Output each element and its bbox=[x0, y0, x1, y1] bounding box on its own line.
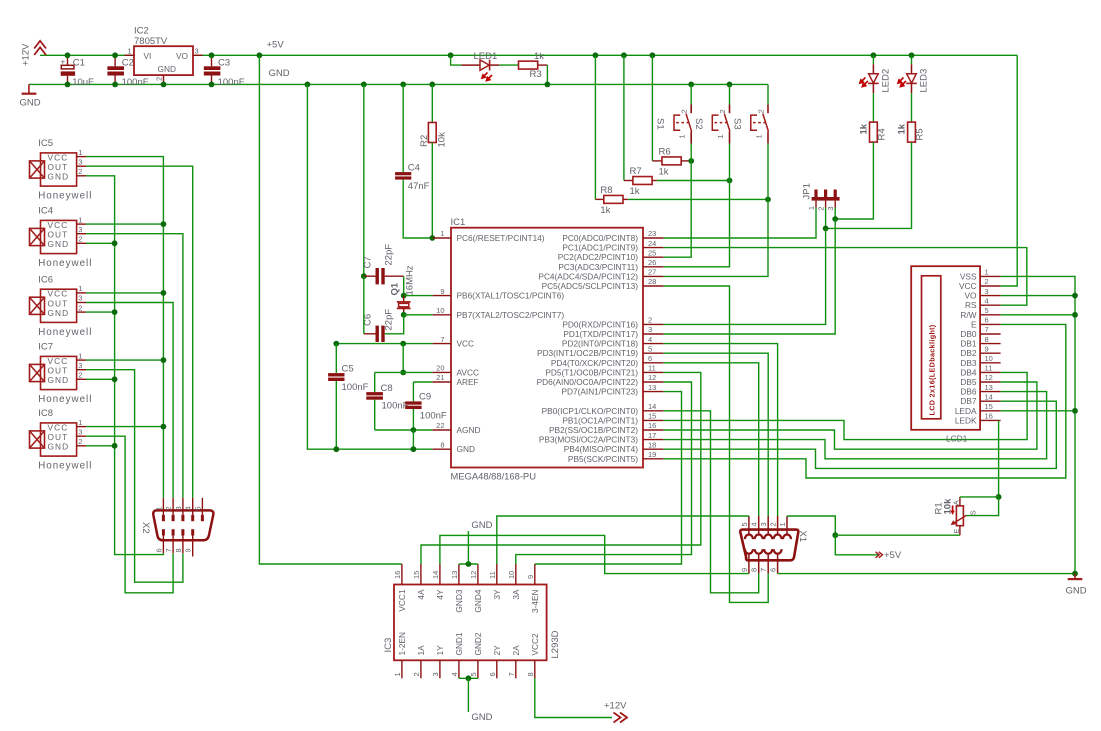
svg-text:PC5(ADC5/SCLPCINT13): PC5(ADC5/SCLPCINT13) bbox=[542, 281, 639, 291]
junction C5 bottom bbox=[333, 446, 339, 452]
svg-text:4: 4 bbox=[648, 335, 652, 344]
svg-text:21: 21 bbox=[436, 373, 444, 382]
svg-text:2: 2 bbox=[718, 109, 727, 113]
svg-text:DB5: DB5 bbox=[960, 377, 977, 387]
svg-text:C7: C7 bbox=[363, 256, 374, 268]
sensor IC5 Honeywell bbox=[30, 152, 77, 186]
svg-text:LEDK: LEDK bbox=[955, 415, 977, 425]
svg-text:7805TV: 7805TV bbox=[134, 36, 168, 47]
svg-text:C2: C2 bbox=[122, 57, 134, 68]
wire AVCC row bbox=[375, 371, 433, 373]
pin 6 IC3 2Y bbox=[496, 660, 498, 678]
supply +12V arrow bottom bbox=[614, 713, 628, 723]
svg-text:RS: RS bbox=[965, 300, 977, 310]
svg-text:DB2: DB2 bbox=[960, 348, 977, 358]
svg-text:3: 3 bbox=[78, 427, 82, 436]
junction IC2 pin2 on GND rail bbox=[161, 82, 167, 88]
svg-text:VO: VO bbox=[965, 291, 978, 301]
wire PD3 to X1.3 bbox=[663, 353, 768, 516]
svg-text:GND: GND bbox=[48, 239, 70, 249]
svg-text:PD0(RXD/PCINT16): PD0(RXD/PCINT16) bbox=[562, 319, 638, 329]
pin 7 IC3 2A bbox=[515, 660, 517, 678]
wire C4 to reset node bbox=[403, 180, 432, 238]
svg-text:+5V: +5V bbox=[267, 40, 285, 51]
wire C4 drop bbox=[402, 84, 404, 172]
pin 12 IC1 PD6(AIN0/OC0A/PCINT22) bbox=[643, 381, 663, 383]
svg-text:IC1: IC1 bbox=[451, 217, 466, 228]
pin 16 IC3 VCC1 bbox=[401, 564, 403, 585]
svg-text:3: 3 bbox=[648, 325, 652, 334]
svg-text:4: 4 bbox=[750, 522, 759, 526]
pin 14 IC1 PB0(ICP1/CLKO/PCINT0) bbox=[643, 410, 663, 412]
capacitor C3 bbox=[204, 55, 221, 84]
supply +5V arrow bbox=[876, 552, 883, 558]
svg-text:5: 5 bbox=[193, 506, 202, 510]
wire PB2 to LCD DB5 bbox=[663, 382, 1037, 449]
junction S2 gnd rail bbox=[727, 82, 733, 88]
junction VCC-AVCC link top bbox=[400, 341, 406, 347]
pin 3 LCD VO bbox=[980, 295, 1001, 297]
pin 11 LCD DB4 bbox=[980, 371, 1001, 373]
junction C3 top bbox=[209, 52, 215, 58]
pin 3 IC8 bbox=[77, 435, 86, 437]
svg-text:12: 12 bbox=[648, 373, 656, 382]
wire PB0 to X1.8 bbox=[663, 411, 758, 593]
svg-text:10uF: 10uF bbox=[72, 77, 94, 88]
junction C1 top bbox=[65, 52, 71, 58]
junction +5V drop bbox=[257, 52, 263, 58]
svg-text:PB4(MISO/PCINT4): PB4(MISO/PCINT4) bbox=[564, 444, 638, 454]
svg-text:2: 2 bbox=[817, 207, 826, 211]
junction C3 bottom bbox=[209, 82, 215, 88]
svg-text:+: + bbox=[61, 57, 66, 66]
svg-text:14: 14 bbox=[431, 571, 440, 579]
svg-text:VSS: VSS bbox=[960, 271, 977, 281]
LED LED1 bbox=[462, 60, 500, 81]
svg-text:LED1: LED1 bbox=[474, 51, 498, 62]
svg-text:22: 22 bbox=[436, 421, 444, 430]
svg-text:7: 7 bbox=[985, 325, 989, 334]
pin 21 IC1 AREF bbox=[433, 381, 451, 383]
wire PB5 to LCD E bbox=[663, 324, 1065, 478]
pin 8 IC3 VCC2 bbox=[534, 660, 536, 678]
svg-text:10: 10 bbox=[507, 571, 516, 579]
svg-text:GND: GND bbox=[48, 172, 70, 182]
svg-text:3: 3 bbox=[78, 294, 82, 303]
wire IC3 bottom gnd stub bbox=[467, 678, 469, 712]
svg-text:AREF: AREF bbox=[457, 377, 479, 387]
junction reset node bbox=[429, 235, 435, 241]
svg-text:1: 1 bbox=[807, 206, 816, 210]
svg-text:VCC: VCC bbox=[959, 281, 977, 291]
svg-text:Honeywell: Honeywell bbox=[38, 191, 92, 202]
pin 11 IC1 PD5(T1/OC0B/PCINT21) bbox=[643, 371, 663, 373]
wire S3 top feed bbox=[767, 84, 769, 104]
pin 7 LCD DB0 bbox=[980, 333, 1001, 335]
svg-text:6: 6 bbox=[769, 568, 778, 572]
svg-text:1: 1 bbox=[678, 134, 687, 138]
svg-text:IC2: IC2 bbox=[134, 25, 149, 36]
pin 1 IC4 bbox=[77, 223, 86, 225]
junction R6 feed bbox=[650, 52, 656, 58]
svg-text:+12V: +12V bbox=[21, 43, 32, 66]
pin 26 IC1 PC3(ADC3/PCINT11) bbox=[643, 266, 663, 268]
svg-text:16: 16 bbox=[985, 412, 993, 421]
wire IC4 GND bbox=[86, 242, 115, 244]
wire +5V drop to IC3 VCC1 bbox=[259, 55, 402, 564]
svg-text:9: 9 bbox=[740, 568, 749, 572]
junction XTAL2 node bbox=[401, 312, 407, 318]
wire IC6 GND bbox=[86, 311, 115, 313]
junction IC6 VCC bbox=[161, 290, 167, 296]
svg-text:15: 15 bbox=[648, 412, 656, 421]
svg-text:13: 13 bbox=[985, 383, 993, 392]
wire AREF row bbox=[413, 381, 432, 383]
svg-text:R4: R4 bbox=[877, 128, 888, 140]
wire +5V rail drop to LCD VCC bbox=[1001, 55, 1018, 286]
pin 11 IC3 3Y bbox=[496, 564, 498, 585]
pin 5 LCD R/W bbox=[980, 314, 1001, 316]
pin 1 IC5 bbox=[77, 156, 86, 158]
pin 4 IC3 GND1 bbox=[458, 660, 460, 678]
junction LED1 tap bbox=[448, 52, 454, 58]
wire IC5 OUT to X2.4 bbox=[86, 166, 193, 498]
wire LCD LEDK to R1 bbox=[998, 420, 1000, 497]
pin 6 IC1 PD4(T0/XCK/PCINT20) bbox=[643, 362, 663, 364]
svg-text:25: 25 bbox=[648, 248, 656, 257]
junction IC4 GND bbox=[112, 240, 118, 246]
svg-text:47nF: 47nF bbox=[408, 181, 430, 192]
wire JP1.2 node to PD0 bbox=[663, 228, 825, 324]
pin 24 IC1 PC1(ADC1/PCINT9) bbox=[643, 247, 663, 249]
svg-text:7: 7 bbox=[507, 672, 516, 676]
pin 18 IC1 PB4(MISO/PCINT4) bbox=[643, 448, 663, 450]
junction AVCC node bbox=[400, 370, 406, 376]
svg-text:GND: GND bbox=[20, 98, 41, 109]
svg-text:6: 6 bbox=[154, 548, 163, 552]
pin 2 IC4 bbox=[77, 242, 86, 244]
svg-text:PC0(ADC0/PCINT8): PC0(ADC0/PCINT8) bbox=[562, 233, 638, 243]
wire S3 bottom bbox=[767, 144, 769, 200]
svg-text:8: 8 bbox=[750, 568, 759, 572]
svg-text:C5: C5 bbox=[342, 364, 354, 375]
svg-text:2: 2 bbox=[680, 109, 689, 113]
wire R8 to S3 bbox=[623, 198, 628, 200]
pin 23 IC1 PC0(ADC0/PCINT8) bbox=[643, 237, 663, 239]
svg-text:1: 1 bbox=[716, 134, 725, 138]
junction C9 AGND bbox=[411, 427, 417, 433]
svg-text:GND: GND bbox=[269, 68, 290, 79]
wire IC3 GND3-GND4 bracket bbox=[459, 563, 478, 565]
pin 12 LCD DB5 bbox=[980, 381, 1001, 383]
svg-text:X2: X2 bbox=[140, 522, 151, 534]
svg-text:PC4(ADC4/SDA/PCINT12): PC4(ADC4/SDA/PCINT12) bbox=[538, 271, 638, 281]
wire +12V top rail bbox=[40, 54, 134, 56]
pin 9 IC1 PB6(XTAL1/TOSC1/PCINT6) bbox=[433, 295, 451, 297]
svg-text:5: 5 bbox=[985, 306, 989, 315]
pin 4 LCD RS bbox=[980, 304, 1001, 306]
pin 2 IC5 bbox=[77, 175, 86, 177]
pin 14 IC3 4Y bbox=[439, 564, 441, 585]
svg-text:16: 16 bbox=[648, 421, 656, 430]
svg-text:3: 3 bbox=[431, 672, 440, 676]
junction VO gnd bbox=[1072, 293, 1078, 299]
svg-text:+12V: +12V bbox=[604, 701, 627, 712]
wire VCC row bbox=[336, 343, 432, 345]
svg-text:1: 1 bbox=[78, 148, 82, 157]
svg-text:IC6: IC6 bbox=[38, 274, 53, 285]
wire IC7 VCC bbox=[86, 359, 163, 361]
pin 7 IC1 VCC bbox=[433, 343, 451, 345]
svg-text:C9: C9 bbox=[419, 392, 431, 403]
regulator IC2 7805TV bbox=[134, 46, 193, 75]
wire PC5 to X1.7 bbox=[663, 286, 768, 602]
svg-text:12: 12 bbox=[985, 373, 993, 382]
pin 17 IC1 PB3(MOSI/OC2A/PCINT3) bbox=[643, 439, 663, 441]
junction JP1.2 node bbox=[823, 226, 829, 232]
svg-text:PD4(T0/XCK/PCINT20): PD4(T0/XCK/PCINT20) bbox=[551, 358, 638, 368]
pin 20 IC1 AVCC bbox=[433, 371, 451, 373]
svg-text:GND: GND bbox=[471, 520, 492, 531]
svg-text:10: 10 bbox=[985, 354, 993, 363]
pin 15 LCD LEDA bbox=[980, 410, 1001, 412]
wire node to +5V stub bbox=[835, 535, 878, 555]
wire GND bus riser bbox=[86, 176, 163, 555]
sensor IC7 Honeywell bbox=[30, 356, 77, 390]
svg-text:2: 2 bbox=[78, 371, 82, 380]
svg-text:4Y: 4Y bbox=[435, 589, 445, 600]
junction R8 feed bbox=[593, 52, 599, 58]
svg-text:PD1(TXD/PCINT17): PD1(TXD/PCINT17) bbox=[563, 329, 638, 339]
svg-text:20: 20 bbox=[436, 364, 444, 373]
wire PB1 to LCD DB4 bbox=[663, 372, 1027, 439]
svg-text:13: 13 bbox=[648, 383, 656, 392]
svg-text:13: 13 bbox=[450, 571, 459, 579]
svg-text:1: 1 bbox=[778, 522, 787, 526]
svg-text:DB6: DB6 bbox=[960, 387, 977, 397]
svg-text:PC2(ADC2/PCINT10): PC2(ADC2/PCINT10) bbox=[558, 252, 638, 262]
pin 27 IC1 PC4(ADC4/SDA/PCINT12) bbox=[643, 275, 663, 277]
pin 13 LCD DB6 bbox=[980, 391, 1001, 393]
wire R1 S to node bbox=[967, 497, 999, 516]
svg-text:1Y: 1Y bbox=[435, 645, 445, 656]
pin 5 IC1 PD3(INT1/OC2B/PCINT19) bbox=[643, 352, 663, 354]
svg-text:GND: GND bbox=[457, 444, 475, 454]
svg-text:8: 8 bbox=[985, 335, 989, 344]
svg-text:VCC: VCC bbox=[48, 152, 69, 162]
svg-text:2: 2 bbox=[412, 672, 421, 676]
junction C2 bottom bbox=[112, 82, 118, 88]
svg-text:7: 7 bbox=[440, 335, 444, 344]
svg-text:PB3(MOSI/OC2A/PCINT3): PB3(MOSI/OC2A/PCINT3) bbox=[539, 435, 638, 445]
svg-text:R3: R3 bbox=[530, 69, 542, 80]
svg-text:9: 9 bbox=[985, 344, 989, 353]
wire IC7 OUT to X2.8 bbox=[86, 370, 183, 583]
junction XTAL1 node bbox=[401, 293, 407, 299]
pin 1 IC1 PC6(/RESET/PCINT14) bbox=[433, 237, 451, 239]
junction GND drop bbox=[305, 82, 311, 88]
wire LED1 feed bbox=[451, 55, 462, 65]
wire S1 node to PC2 bbox=[663, 161, 691, 257]
capacitor C2 bbox=[107, 55, 124, 84]
svg-text:S1: S1 bbox=[655, 118, 666, 130]
svg-text:S2: S2 bbox=[693, 118, 704, 130]
svg-text:S: S bbox=[968, 510, 977, 515]
pin 14 LCD DB7 bbox=[980, 400, 1001, 402]
wire X1.1 to +5V node bbox=[787, 516, 835, 535]
svg-text:100nF: 100nF bbox=[122, 77, 149, 88]
svg-text:1: 1 bbox=[985, 268, 989, 277]
svg-text:LED3: LED3 bbox=[919, 69, 930, 93]
wire IC6 VCC bbox=[86, 292, 163, 294]
wire IC3 GND1-GND2 bracket bbox=[459, 677, 478, 679]
junction GND row bbox=[411, 446, 417, 452]
svg-text:9: 9 bbox=[184, 548, 193, 552]
svg-text:100nF: 100nF bbox=[342, 382, 369, 393]
svg-text:3: 3 bbox=[78, 225, 82, 234]
wire IC3 3Y to X1.5 bbox=[497, 516, 749, 564]
svg-text:6: 6 bbox=[985, 316, 989, 325]
wire S2 bottom bbox=[729, 144, 731, 181]
svg-text:PC3(ADC3/PCINT11): PC3(ADC3/PCINT11) bbox=[558, 262, 638, 272]
wire S1 top feed bbox=[690, 84, 692, 104]
wire LED3 to R5 bbox=[911, 93, 913, 122]
svg-text:8: 8 bbox=[174, 548, 183, 552]
svg-text:9: 9 bbox=[440, 287, 444, 296]
wire JP1.3 down bbox=[834, 208, 836, 220]
pin 3 IC1 PD1(TXD/PCINT17) bbox=[643, 333, 663, 335]
junction R3 gnd bbox=[545, 82, 551, 88]
svg-text:10k: 10k bbox=[437, 132, 448, 148]
svg-text:2: 2 bbox=[985, 277, 989, 286]
pin 22 IC1 AGND bbox=[433, 429, 451, 431]
svg-text:9: 9 bbox=[526, 575, 535, 579]
svg-text:1: 1 bbox=[78, 284, 82, 293]
svg-text:3: 3 bbox=[195, 46, 199, 55]
svg-text:IC8: IC8 bbox=[38, 408, 53, 419]
svg-text:PB2(SS/OC1B/PCINT2): PB2(SS/OC1B/PCINT2) bbox=[549, 425, 638, 435]
svg-text:1: 1 bbox=[755, 134, 764, 138]
junction S1 gnd rail bbox=[688, 82, 694, 88]
junction IC3 bottom gnd bbox=[466, 675, 472, 681]
junction C4 rail bbox=[361, 82, 367, 88]
svg-text:1k: 1k bbox=[897, 123, 908, 134]
svg-text:2: 2 bbox=[78, 167, 82, 176]
svg-text:10: 10 bbox=[436, 306, 444, 315]
svg-text:11: 11 bbox=[985, 364, 993, 373]
wire S1 bottom bbox=[690, 144, 692, 161]
pin 15 IC3 4A bbox=[420, 564, 422, 585]
svg-text:1k: 1k bbox=[859, 123, 870, 134]
wire IC7 GND bbox=[86, 378, 115, 380]
svg-text:PD3(INT1/OC2B/PCINT19): PD3(INT1/OC2B/PCINT19) bbox=[537, 348, 638, 358]
junction IC7 GND bbox=[112, 376, 118, 382]
ground symbol GND left bbox=[28, 84, 30, 93]
wire JP1.1 to PC0 bbox=[663, 208, 816, 239]
svg-text:5: 5 bbox=[740, 522, 749, 526]
svg-text:R8: R8 bbox=[600, 185, 612, 196]
junction C1 bottom bbox=[65, 82, 71, 88]
wire GND rail bbox=[29, 83, 768, 85]
capacitor C9 bbox=[405, 382, 421, 430]
wire PB3 to LCD DB6 bbox=[663, 392, 1046, 459]
svg-text:PC1(ADC1/PCINT9): PC1(ADC1/PCINT9) bbox=[562, 243, 638, 253]
junction IC3 top gnd bbox=[466, 561, 472, 567]
svg-text:LCD1: LCD1 bbox=[946, 434, 968, 444]
svg-text:R6: R6 bbox=[659, 146, 671, 157]
junction C7 common bbox=[361, 273, 367, 279]
wire XTAL2 node to pin10 bbox=[404, 314, 433, 316]
sensor IC8 Honeywell bbox=[30, 422, 77, 456]
wire LED1 to R3 bbox=[499, 64, 518, 66]
switch S3 bbox=[751, 105, 769, 144]
svg-text:8: 8 bbox=[440, 440, 444, 449]
svg-text:DB1: DB1 bbox=[960, 339, 977, 349]
svg-text:1k: 1k bbox=[534, 51, 544, 62]
svg-text:22pF: 22pF bbox=[384, 244, 395, 266]
svg-text:JP1: JP1 bbox=[802, 183, 813, 199]
junction R6-S1 bbox=[688, 158, 694, 164]
svg-text:4A: 4A bbox=[416, 589, 426, 600]
svg-text:14: 14 bbox=[648, 402, 656, 411]
wire JP1.3 node to PD1 bbox=[663, 219, 835, 334]
svg-text:3: 3 bbox=[985, 287, 989, 296]
wire PD2 to X1.2 bbox=[663, 344, 777, 516]
svg-text:1: 1 bbox=[78, 418, 82, 427]
pin 3 IC6 bbox=[77, 302, 86, 304]
junction C4 gnd-rail tap bbox=[400, 82, 406, 88]
wire LCD VO to gnd bbox=[1001, 295, 1075, 297]
wire IC4 VCC bbox=[86, 223, 163, 225]
svg-text:3-4EN: 3-4EN bbox=[530, 590, 540, 614]
svg-text:PD5(T1/OC0B/PCINT21): PD5(T1/OC0B/PCINT21) bbox=[545, 367, 638, 377]
resistor R2 bbox=[428, 123, 436, 143]
svg-text:IC4: IC4 bbox=[38, 206, 53, 217]
svg-text:PB6(XTAL1/TOSC1/PCINT6): PB6(XTAL1/TOSC1/PCINT6) bbox=[457, 291, 565, 301]
wire S2 top feed bbox=[729, 84, 731, 104]
wire VCC bus riser bbox=[86, 157, 163, 498]
pin 3 IC7 bbox=[77, 369, 86, 371]
wire common to C6 bbox=[363, 276, 365, 334]
svg-text:3A: 3A bbox=[511, 589, 521, 600]
wire R2 to reset node bbox=[431, 143, 433, 239]
junction IC4 VCC bbox=[161, 221, 167, 227]
wire R7 to S2 bbox=[652, 180, 657, 182]
wire VCC2 to +12V bbox=[535, 678, 612, 717]
switch S1 bbox=[674, 105, 692, 144]
LED LED3 bbox=[898, 55, 917, 93]
svg-text:AGND: AGND bbox=[457, 425, 481, 435]
svg-text:GND4: GND4 bbox=[473, 589, 483, 612]
svg-text:2Y: 2Y bbox=[492, 645, 502, 656]
pin 9 IC3 3-4EN bbox=[534, 564, 536, 585]
svg-text:DB7: DB7 bbox=[960, 396, 977, 406]
pin 2 IC1 PD0(RXD/PCINT16) bbox=[643, 323, 663, 325]
wire +5V top rail bbox=[193, 54, 1017, 56]
pin 2 LCD VCC bbox=[980, 285, 1001, 287]
svg-text:2: 2 bbox=[164, 506, 173, 510]
svg-text:A: A bbox=[952, 500, 961, 505]
pin 19 IC1 PB5(SCK/PCINT5) bbox=[643, 458, 663, 460]
svg-text:VCC: VCC bbox=[48, 422, 69, 432]
pin 13 IC1 PD7(AIN1/PCINT23) bbox=[643, 391, 663, 393]
svg-text:11: 11 bbox=[488, 571, 497, 579]
junction LEDA gnd bbox=[1072, 408, 1078, 414]
wire LCD LEDA to gnd bbox=[1001, 410, 1075, 412]
pin 15 IC1 PB1(OC1A/PCINT1) bbox=[643, 419, 663, 421]
LED LED2 bbox=[860, 55, 879, 93]
svg-text:VCC1: VCC1 bbox=[397, 589, 407, 612]
